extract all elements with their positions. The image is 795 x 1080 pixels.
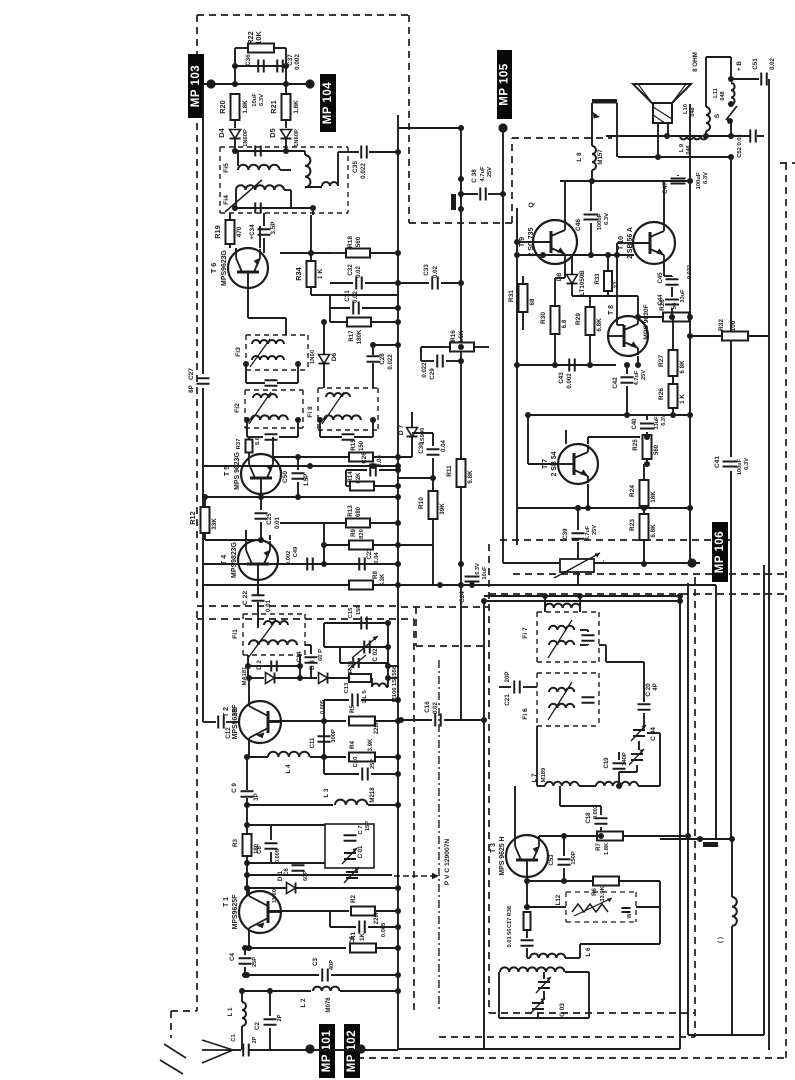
svg-text:C 02: C 02: [372, 648, 379, 662]
IF transformer Fi1 box top: [243, 613, 305, 615]
resistor R30: [551, 306, 560, 334]
svg-text:R17: R17: [349, 330, 355, 342]
wire: [623, 835, 688, 837]
svg-text:L 8: L 8: [576, 152, 583, 162]
test point MP 101: [319, 1024, 335, 1078]
dashed boundary of IF amplifier block (right edge): [408, 15, 410, 223]
capacitor C19: [613, 763, 626, 769]
resistor R11: [457, 459, 466, 487]
wire: [600, 806, 602, 815]
terminal dot MP 106: [687, 558, 696, 567]
dashed boundary right edge of page: [785, 163, 787, 1058]
wire: [563, 868, 565, 881]
svg-text:C 7: C 7: [358, 825, 364, 834]
capacitor C49: [307, 558, 313, 571]
svg-text:6.3V: 6.3V: [703, 172, 709, 184]
junction: [395, 718, 401, 724]
wire: [537, 785, 545, 787]
wire: [244, 967, 246, 975]
svg-text:470: 470: [236, 226, 243, 237]
wire: [600, 827, 602, 836]
svg-text:R33: R33: [595, 273, 601, 285]
wire: [498, 686, 500, 688]
svg-text:C17 R38: C17 R38: [507, 906, 513, 928]
speaker: [633, 84, 691, 103]
svg-text:R1: R1: [350, 931, 357, 940]
wire: [626, 386, 628, 415]
wire: [398, 477, 433, 479]
junction: [283, 81, 289, 87]
wire: [323, 623, 325, 647]
svg-text:048: 048: [720, 91, 726, 100]
svg-text:1 K: 1 K: [317, 269, 324, 279]
inductor L12 box left: [565, 892, 567, 922]
wire: [297, 364, 299, 383]
wire converter left rail: [202, 585, 204, 722]
junction: [395, 754, 401, 760]
variable capacitor C01: [344, 853, 356, 859]
svg-text:1.5P: 1.5P: [304, 474, 310, 486]
svg-text:S: S: [714, 113, 721, 118]
svg-text:MPS 9630F: MPS 9630F: [643, 304, 650, 339]
inductor L5: [732, 897, 737, 926]
wire to C12: [203, 721, 216, 723]
svg-text:C44: C44: [658, 294, 664, 306]
wire: [229, 213, 231, 248]
junction: [525, 412, 531, 418]
wire: [373, 344, 398, 346]
wire: [386, 686, 388, 688]
capacitor C45: [666, 279, 679, 285]
svg-text:MPS 9625 H: MPS 9625 H: [499, 836, 506, 875]
svg-text:T 4: T 4: [220, 555, 228, 565]
wire: [377, 947, 398, 949]
junction: [321, 561, 327, 567]
svg-text:T 1: T 1: [223, 897, 230, 907]
resistor R15: [349, 453, 373, 462]
capacitor C51: [761, 73, 767, 86]
wire row y255: [517, 254, 634, 256]
wire: [607, 291, 609, 296]
inductor L2: [313, 987, 339, 991]
svg-text:C23: C23: [367, 548, 373, 560]
dashed boundary of oscillator block (right edge): [694, 577, 696, 1037]
svg-text:D 2: D 2: [256, 660, 263, 670]
svg-text:33uF: 33uF: [654, 416, 660, 430]
junction: [310, 205, 316, 211]
svg-text:0.01: 0.01: [265, 599, 272, 612]
resistor R19: [226, 220, 235, 244]
wire tank right: [588, 972, 590, 1018]
transistor T8: [608, 316, 648, 356]
wire T4 emitter: [245, 530, 247, 540]
junction: [395, 945, 401, 951]
wire row y295: [311, 294, 398, 296]
wire: [331, 974, 398, 976]
svg-text:T 3: T 3: [490, 843, 497, 853]
wire: [446, 360, 461, 362]
wire: [204, 497, 206, 507]
junction: [687, 412, 693, 418]
wire: [328, 677, 349, 679]
svg-text:1N60P: 1N60P: [294, 129, 300, 147]
capacitor C38: [480, 188, 486, 201]
resistor R5: [349, 717, 375, 726]
terminal dot MP 103: [206, 79, 215, 88]
wire to L5: [731, 839, 733, 897]
wire: [522, 283, 524, 285]
svg-text:33K: 33K: [211, 518, 218, 530]
svg-text:0.002: 0.002: [567, 373, 573, 389]
wire T7 base: [528, 463, 558, 465]
wire: [310, 287, 312, 295]
wire output rail y136: [606, 135, 750, 137]
wire bottom rail y1049: [398, 1048, 680, 1050]
junction: [244, 802, 250, 808]
svg-text:180K: 180K: [357, 329, 363, 344]
wire: [304, 151, 306, 155]
svg-text:MA181: MA181: [242, 666, 248, 686]
wire: [677, 175, 679, 176]
svg-text:R37: R37: [236, 439, 242, 450]
junction: [321, 319, 327, 325]
capacitor Fi5 tuning: [255, 146, 261, 157]
capacitor C8: [265, 843, 278, 849]
wire T7 collector up: [587, 437, 589, 444]
svg-text:82K: 82K: [356, 472, 362, 484]
wire: [316, 563, 356, 565]
resistor R6: [593, 877, 619, 886]
svg-text:MP 101: MP 101: [321, 1030, 333, 1073]
svg-text:25V: 25V: [592, 525, 598, 535]
junction: [641, 561, 647, 567]
capacitor C47: [671, 179, 686, 184]
svg-text:R16: R16: [450, 330, 457, 342]
wire far right rail 2: [763, 565, 765, 1035]
wire: [297, 862, 299, 863]
wire T4 base lead: [257, 580, 259, 595]
wire row y825: [247, 824, 325, 826]
svg-text:T 7: T 7: [542, 459, 549, 469]
capacitor C10: [362, 768, 368, 781]
wire row y927: [330, 926, 356, 928]
wire row y975: [247, 974, 319, 976]
wire T5 base lead: [260, 494, 262, 497]
junction: [614, 252, 620, 258]
transistor T10: [633, 222, 675, 264]
svg-text:39K: 39K: [439, 503, 446, 515]
svg-text:R31: R31: [508, 290, 515, 302]
junction: [246, 945, 252, 951]
wire: [305, 186, 322, 188]
wire left column: [246, 798, 248, 834]
svg-text:C2: C2: [254, 1021, 261, 1030]
wire: [646, 432, 648, 435]
junction: [458, 358, 464, 364]
capacitor Fi2 tuning: [265, 434, 278, 440]
svg-text:1N60: 1N60: [310, 350, 316, 364]
svg-text:C49: C49: [293, 546, 299, 557]
svg-text:2 SB 54: 2 SB 54: [551, 451, 558, 476]
wire T10 collector: [663, 181, 665, 223]
tuning arrow Fi4: [225, 180, 262, 212]
svg-text:( ): ( ): [717, 937, 724, 943]
junction: [297, 675, 303, 681]
resistor R31: [519, 284, 528, 312]
junction: [385, 675, 391, 681]
junction: [655, 154, 661, 160]
wire: [522, 276, 524, 284]
junction: [577, 593, 583, 599]
junction: [589, 178, 595, 184]
junction: [644, 461, 650, 467]
wire row y564 left: [280, 563, 304, 565]
svg-text:Fi4: Fi4: [223, 195, 230, 205]
svg-text:150P: 150P: [571, 851, 577, 865]
svg-text:1K: 1K: [360, 933, 366, 941]
svg-text:Q: Q: [528, 202, 535, 207]
wire: [672, 408, 674, 415]
wire: [401, 719, 432, 721]
junction: [500, 191, 506, 197]
IF transformer Fi6 box bottom: [537, 725, 599, 727]
svg-text:C4: C4: [229, 952, 236, 961]
resistor R22: [248, 44, 274, 53]
wire: [319, 420, 321, 437]
junction: [641, 505, 647, 511]
trimmer loop box: [325, 824, 374, 868]
wire: [643, 506, 645, 508]
wire: [248, 452, 250, 455]
IF transformer Fi2 box top: [245, 389, 303, 391]
wire: [260, 522, 262, 540]
wire C15 row: [324, 622, 388, 624]
junction: [669, 314, 675, 320]
inductor L9: [680, 136, 707, 139]
inductor Fi2 primary: [253, 394, 277, 398]
wire: [421, 346, 443, 348]
svg-text:M078: M078: [326, 997, 332, 1013]
svg-text:1 L 5: 1 L 5: [362, 690, 368, 704]
capacitor C25: [255, 513, 268, 519]
wire output rail x730 upper: [730, 157, 732, 457]
dash-dot arrow stub: [394, 875, 434, 877]
svg-text:6.8K: 6.8K: [467, 470, 474, 484]
resistor R25: [643, 435, 652, 459]
wire: [638, 316, 663, 318]
wire C28 column bottom: [372, 363, 374, 388]
wire: [323, 523, 325, 564]
wire: [249, 756, 268, 758]
wire: [330, 282, 353, 284]
IF transformer Fi1 box bottom: [243, 654, 305, 656]
capacitor Fi7 tuning: [582, 635, 595, 641]
junction: [685, 833, 691, 839]
svg-text:D8: D8: [556, 272, 563, 281]
diode D8: [567, 275, 578, 284]
wire: [374, 485, 398, 487]
transistor T5: [241, 454, 281, 494]
wire T2 base row: [268, 720, 346, 722]
dashed bottom rail: [439, 1036, 695, 1038]
wire base row y497: [205, 496, 398, 498]
svg-text:C26: C26: [361, 452, 368, 464]
junction: [283, 63, 289, 69]
wire: [522, 312, 524, 330]
IF transformer Fi6 box right: [598, 673, 600, 726]
svg-text:R24: R24: [629, 485, 636, 497]
resistor R2: [351, 907, 375, 916]
svg-text:C53: C53: [549, 854, 555, 866]
svg-text:+C34: +C34: [249, 224, 256, 240]
capacitor Fi8 tuning: [342, 434, 355, 440]
wire: [290, 190, 292, 208]
svg-text:1.8K: 1.8K: [293, 100, 300, 114]
resistor R9: [349, 541, 373, 550]
wire: [577, 542, 579, 553]
svg-text:0.022: 0.022: [687, 265, 693, 279]
capacitor C7: [344, 835, 357, 841]
svg-text:C 9: C 9: [231, 783, 238, 793]
battery terminal bar: [703, 842, 718, 847]
svg-text:Fi3: Fi3: [235, 347, 242, 357]
dashed boundary top edge of audio block: [512, 137, 612, 139]
wire: [646, 459, 648, 464]
svg-text:C 20: C 20: [645, 683, 652, 697]
svg-text:C41: C41: [714, 456, 721, 468]
svg-text:L12: L12: [556, 894, 562, 905]
junction: [481, 717, 487, 723]
capacitor C34: [258, 229, 271, 235]
junction: [395, 561, 401, 567]
svg-text:D6: D6: [331, 352, 338, 361]
svg-text:R8: R8: [372, 570, 379, 579]
svg-text:0.02: 0.02: [433, 265, 439, 277]
wire L5 down: [731, 926, 733, 1035]
junction: [481, 598, 487, 604]
wire: [664, 275, 672, 277]
wire: [411, 412, 413, 427]
junction: [687, 314, 693, 320]
IF transformer box right: [347, 147, 349, 213]
wire IF left rail upper: [202, 84, 204, 374]
capacitor Fi4 tuning: [255, 203, 261, 214]
tuning arrow gang: [348, 655, 366, 670]
svg-text:C33: C33: [423, 264, 430, 276]
resistor R10: [429, 491, 438, 519]
test point MP 103: [188, 54, 204, 118]
wire: [643, 464, 645, 480]
wire battery rail: [660, 838, 732, 840]
wire rail y596: [484, 595, 680, 597]
wire: [323, 364, 325, 388]
junction: [232, 205, 238, 211]
svg-text:C50: C50: [282, 471, 289, 483]
wire: [543, 972, 545, 979]
wire: [361, 699, 398, 701]
wire tank left: [498, 972, 500, 1018]
wire: [671, 276, 673, 277]
junction: [728, 154, 734, 160]
wire: [235, 190, 237, 208]
resistor R33: [604, 271, 612, 291]
wire: [638, 741, 640, 750]
wire: [580, 943, 660, 945]
svg-text:100uF: 100uF: [696, 172, 702, 189]
wire: [605, 645, 607, 662]
junction: [458, 125, 464, 131]
wire: [354, 436, 373, 438]
svg-text:MPS 9623G: MPS 9623G: [234, 452, 241, 490]
dashed boundary below audio block lower: [489, 593, 786, 595]
junction: [552, 362, 558, 368]
resistor R4: [349, 753, 375, 762]
junction: [395, 520, 401, 526]
svg-text:R20: R20: [218, 100, 227, 114]
transistor T2: [239, 701, 281, 743]
variable capacitor gang 2: [631, 754, 643, 760]
junction: [370, 417, 376, 423]
capacitor C15: [361, 617, 367, 630]
wire: [398, 282, 429, 284]
junction: [395, 802, 401, 808]
svg-text:C16: C16: [424, 701, 431, 713]
wire T8 emitter down: [637, 356, 639, 365]
svg-text:0.002: 0.002: [593, 805, 599, 819]
wire T7 emitter up: [565, 430, 567, 444]
svg-text:1N60P: 1N60P: [243, 129, 249, 147]
wire bottom-right link: [688, 1034, 764, 1036]
svg-text:+ B: + B: [736, 61, 743, 71]
svg-text:60 P: 60 P: [318, 649, 324, 661]
svg-text:Fi2: Fi2: [234, 403, 241, 413]
terminal dot MP 102: [356, 1044, 365, 1053]
capacitor C2: [264, 1019, 277, 1025]
wire T5 emitter: [248, 437, 250, 440]
svg-text:5R: 5R: [233, 708, 239, 716]
wire: [626, 365, 628, 374]
test point MP 102: [344, 1024, 360, 1078]
wire: [432, 458, 434, 478]
wire: [368, 563, 398, 565]
wire: [672, 376, 674, 384]
diode D4: [230, 130, 241, 139]
wire: [204, 533, 206, 540]
tuning arrow Fi1: [248, 620, 276, 658]
svg-text:R12: R12: [188, 511, 197, 525]
svg-text:C46: C46: [575, 219, 582, 231]
svg-text:C 38: C 38: [471, 169, 478, 183]
junction: [395, 342, 401, 348]
svg-text:M218: M218: [370, 787, 376, 803]
wire: [499, 686, 511, 688]
inductor Fi1 primary: [264, 621, 288, 625]
svg-text:R30: R30: [540, 312, 547, 324]
wire right tie: [659, 881, 661, 944]
wire: [235, 47, 249, 49]
svg-text:Fi 8: Fi 8: [307, 406, 314, 418]
capacitor C39: [572, 533, 585, 539]
wire: [543, 991, 545, 1000]
dashed link box top: [401, 606, 489, 608]
svg-text:150: 150: [359, 440, 365, 451]
capacitor L12 pad: [622, 908, 631, 912]
svg-text:C45: C45: [658, 272, 664, 284]
svg-text:40P: 40P: [329, 960, 335, 970]
junction: [458, 191, 464, 197]
wire: [577, 553, 579, 559]
junction: [458, 280, 464, 286]
